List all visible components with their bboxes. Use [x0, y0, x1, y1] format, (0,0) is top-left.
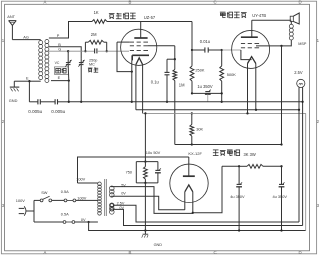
capacitor 10u	[157, 162, 159, 171]
svg-text:VC: VC	[55, 61, 60, 65]
svg-text:AG: AG	[23, 34, 29, 39]
wire 47B filament leg right	[255, 64, 257, 110]
svg-text:100V: 100V	[76, 177, 85, 182]
svg-text:2.5V: 2.5V	[294, 70, 303, 75]
wire switch to fuse	[52, 199, 64, 201]
node 47B heater leg A	[255, 109, 257, 111]
svg-text:0V: 0V	[121, 191, 126, 195]
wire to coupling cap	[192, 49, 205, 51]
node speaker screen junction	[280, 45, 282, 47]
node rail A pilot	[298, 109, 300, 111]
wire cap2 to node	[58, 101, 69, 103]
wire heater leg right	[142, 65, 144, 114]
UY-47B filament	[248, 57, 256, 64]
wire fuse to primary	[76, 199, 91, 201]
wire HV feed	[78, 157, 189, 183]
UY-47B plate	[251, 20, 253, 37]
svg-text:B: B	[129, 250, 132, 255]
tuning label boxed	[54, 67, 68, 74]
node bus pilot	[301, 101, 303, 103]
wire grid wire 47B	[222, 49, 241, 51]
bias box bottom rail	[136, 182, 158, 184]
node 500K mid	[221, 92, 223, 94]
ground GND symbol	[13, 81, 15, 87]
svg-text:0.1u: 0.1u	[151, 79, 159, 84]
capacitor 0.005u #2	[54, 99, 56, 104]
wire primary 0V to ground rail	[89, 222, 146, 231]
svg-text:A: A	[44, 250, 47, 255]
coil E2 terminal wire right	[51, 80, 69, 82]
filter capacitor 4u #2	[281, 166, 283, 184]
node bus at E2	[68, 101, 70, 103]
wire cathode to bus	[131, 60, 133, 101]
wire E2 down to bus	[68, 81, 70, 102]
svg-text:0.005u: 0.005u	[51, 109, 65, 114]
node cap1 ground	[238, 229, 240, 231]
pilot lamp	[297, 79, 305, 87]
wire screen feed line	[192, 144, 282, 146]
antenna coil secondary winding	[45, 40, 49, 44]
capacitor 1u 350V	[205, 91, 210, 93]
capacitor 250p	[94, 48, 96, 53]
resistor 250K	[191, 50, 193, 66]
wire G to cap	[68, 50, 85, 52]
wire KX filament leg right	[192, 192, 194, 213]
svg-text:500K: 500K	[227, 72, 236, 77]
capacitor 0.1u	[165, 71, 170, 73]
UZ-57 grid G2	[130, 45, 134, 47]
svg-text:GND: GND	[9, 98, 18, 103]
wire 1M to 30K node	[175, 144, 192, 146]
svg-text:750: 750	[126, 170, 132, 175]
node G wire left	[84, 50, 86, 52]
UZ-57 grid G1	[130, 50, 134, 52]
speaker coil	[289, 24, 293, 28]
wire between caps	[40, 101, 55, 103]
wire heater rail B	[143, 112, 306, 114]
UZ-57 G2 exit wire	[148, 45, 175, 47]
wire plug split	[33, 200, 35, 222]
2.5V terminal circles	[110, 204, 113, 207]
node 0.1u on bus	[166, 101, 168, 103]
speaker horn	[290, 16, 293, 21]
svg-text:E: E	[58, 75, 61, 80]
wire coil E to ground	[14, 80, 29, 82]
wire 0.1u to bus	[166, 75, 168, 102]
svg-text:3K 3W: 3K 3W	[244, 152, 256, 157]
rectifier title	[213, 150, 219, 156]
wire screen node	[174, 46, 176, 59]
node plate RC	[191, 49, 193, 51]
node coil E	[28, 80, 30, 82]
resistor 30K	[191, 113, 193, 124]
svg-text:30K: 30K	[196, 127, 203, 132]
resistor 2M riser left	[84, 42, 86, 51]
svg-text:MSP: MSP	[298, 42, 307, 46]
UZ-57 cathode	[132, 54, 149, 56]
regen label	[88, 68, 93, 72]
wire bottom rail	[34, 221, 63, 223]
node screen	[174, 58, 176, 60]
svg-text:D: D	[298, 0, 301, 4]
node G to tuning cap	[67, 50, 69, 52]
svg-text:100V: 100V	[77, 196, 86, 201]
wire B+ to 3K	[222, 165, 239, 167]
wire grid to tube	[97, 50, 107, 52]
node cap2 ground	[280, 229, 282, 231]
svg-text:1u 350V: 1u 350V	[197, 84, 213, 89]
svg-text:2.5V: 2.5V	[117, 201, 125, 205]
wire speaker coil return	[282, 40, 292, 46]
detector title	[109, 14, 115, 19]
svg-text:C: C	[213, 250, 216, 255]
node E2 junction	[68, 79, 70, 81]
svg-text:UY-47B: UY-47B	[252, 13, 266, 18]
node filter cap1 top	[238, 165, 240, 167]
47B grid hook	[241, 50, 252, 60]
wire heater leg left	[135, 65, 137, 110]
tube KX-12F envelope	[170, 164, 208, 202]
resistor 1M	[174, 59, 176, 69]
wire 5V return	[111, 196, 185, 210]
wire pilot right leg	[302, 87, 304, 225]
tube UZ-57 envelope	[121, 29, 157, 65]
tube UY-47B envelope	[232, 30, 270, 68]
wire to capacitor	[29, 101, 38, 103]
svg-text:D: D	[298, 250, 301, 255]
wire antenna stem	[11, 25, 13, 39]
wire plate drop	[191, 22, 193, 51]
svg-text:0.5A: 0.5A	[61, 211, 69, 216]
node filter cap2 top	[280, 165, 282, 167]
resistor 2M riser right	[106, 42, 108, 51]
transformer 2.5V winding	[110, 203, 115, 208]
wire KX filament leg left	[184, 192, 186, 210]
resistor 1K	[92, 20, 107, 24]
switch SW	[40, 199, 43, 202]
wire screen to cap	[167, 58, 175, 60]
wire 47B filament leg left	[247, 64, 249, 114]
svg-text:4u 350V: 4u 350V	[273, 194, 288, 199]
UY-47B G2 exit wire	[258, 43, 260, 45]
node 500K top	[221, 49, 223, 51]
coil tap B wire to regen cap	[49, 47, 81, 59]
wire bias to earth	[144, 183, 146, 231]
svg-text:UZ-57: UZ-57	[144, 15, 156, 20]
power transformer primary winding	[98, 182, 102, 186]
wire coil E down	[28, 81, 30, 102]
wire top rail to switch	[34, 199, 40, 201]
node G3-cathode	[131, 70, 133, 72]
UY-47B grid G1	[241, 47, 245, 49]
resistor 2M horiz stubs	[85, 41, 88, 43]
node 500K on bus	[221, 101, 223, 103]
node 30K bottom	[191, 143, 193, 145]
wire plate to speaker	[252, 19, 291, 21]
svg-text:SW: SW	[41, 190, 48, 195]
node 2M right	[106, 50, 108, 52]
transformer 5V winding	[110, 186, 115, 191]
wire G3 return	[117, 42, 132, 72]
svg-text:G: G	[58, 46, 61, 51]
resistor 750	[144, 162, 146, 167]
KX-12F filament	[185, 185, 193, 192]
svg-text:4u 350V: 4u 350V	[230, 194, 245, 199]
antenna symbol	[9, 20, 17, 22]
svg-text:C: C	[213, 0, 216, 4]
power transformer core	[104, 179, 106, 216]
svg-text:KX-12F: KX-12F	[188, 151, 202, 156]
capacitor 0.005u #1	[37, 99, 39, 104]
wire fuse to primary 0V	[75, 221, 91, 223]
coil tap G wire	[49, 50, 68, 52]
fuse 0.5A bottom	[63, 221, 66, 224]
coil E terminal wire left	[29, 80, 40, 82]
node 47B heater leg B	[246, 112, 248, 114]
earth chassis symbol	[144, 231, 146, 235]
wire B+ decouple	[192, 92, 222, 94]
resistor 3K 3W	[239, 165, 247, 167]
wire rectifier output	[193, 166, 222, 213]
node earth	[144, 229, 146, 231]
variable capacitor tuning	[67, 51, 69, 62]
svg-text:MC: MC	[89, 63, 95, 67]
resistor 2M	[88, 40, 104, 44]
wire heater rail A	[136, 109, 299, 111]
node KX output	[192, 212, 194, 214]
svg-text:2M: 2M	[91, 32, 97, 37]
bias box left side	[135, 162, 137, 183]
node cathode on bus	[131, 101, 133, 103]
svg-text:P: P	[57, 33, 60, 38]
UY-47B grid G2	[241, 43, 245, 45]
node 250K bottom	[191, 92, 193, 94]
svg-text:GND: GND	[154, 243, 163, 247]
filter capacitor 4u #1	[238, 166, 240, 184]
node regen cap on bus	[80, 101, 82, 103]
resistor 500K	[221, 50, 223, 66]
svg-text:0.01u: 0.01u	[200, 39, 210, 44]
UZ-57 G3 exit wire	[117, 41, 130, 43]
svg-text:A: A	[44, 0, 47, 4]
coil terminal P wire	[49, 22, 92, 39]
UY-47B screen exit	[256, 45, 282, 47]
bias box top rail	[136, 161, 158, 163]
svg-text:1M: 1M	[179, 82, 185, 87]
wire rail B down right side	[305, 113, 307, 230]
svg-text:0V: 0V	[81, 217, 86, 222]
wire 2.5V return to bottom rail	[113, 209, 302, 225]
wire bias from rail B	[144, 113, 146, 161]
node bias box bottom	[144, 182, 146, 184]
wire antenna to coil AG	[12, 39, 40, 41]
node 30K on heater rail	[191, 112, 193, 114]
primary tap 100V lower	[91, 199, 98, 201]
svg-text:ANT: ANT	[7, 14, 15, 19]
node primary 0V	[87, 221, 89, 223]
fuse 0.5A top	[64, 199, 67, 202]
wire main bus	[69, 101, 303, 103]
wire 1K to plate top	[107, 21, 192, 23]
capacitor 0.01u	[204, 47, 206, 52]
wire pilot left leg	[298, 87, 300, 222]
antenna coil primary winding	[39, 41, 43, 45]
wire 5V tap	[111, 187, 193, 214]
primary tap 0V	[91, 221, 98, 223]
svg-text:1K: 1K	[94, 10, 99, 15]
svg-text:250K: 250K	[195, 68, 204, 73]
variable capacitor regen	[79, 62, 84, 64]
UZ-57 heater	[136, 58, 143, 65]
node bias tap on rail B	[144, 112, 146, 114]
wire ground rail	[145, 230, 305, 232]
UZ-57 plate	[140, 22, 142, 39]
svg-text:10u 50V: 10u 50V	[146, 150, 161, 155]
node bias box top	[144, 160, 146, 162]
UZ-57 grid G3	[130, 41, 134, 43]
wire cap to grid node	[208, 49, 222, 51]
AC plug	[19, 207, 25, 209]
KX-12F plate	[188, 157, 190, 176]
wire screen node down B+	[281, 46, 283, 145]
svg-text:E: E	[26, 76, 29, 81]
node screen feed at B+	[280, 143, 282, 145]
svg-text:B: B	[129, 0, 132, 4]
wire 2.5V tap to bottom rail	[113, 205, 299, 222]
svg-text:0.5A: 0.5A	[61, 189, 69, 194]
primary tap 100V upper	[78, 182, 98, 184]
power amp title	[220, 12, 226, 18]
svg-text:100V: 100V	[16, 198, 25, 203]
svg-text:0.005u: 0.005u	[28, 109, 42, 114]
